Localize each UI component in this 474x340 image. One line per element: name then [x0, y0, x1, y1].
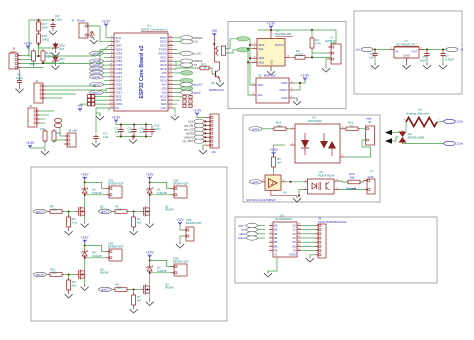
- svg-text:220v: 220v: [457, 142, 464, 146]
- svg-text:VDDO: VDDO: [279, 88, 288, 92]
- svg-text:10KΩ: 10KΩ: [46, 55, 55, 59]
- svg-text:100: 100: [52, 208, 57, 212]
- wire J5 pin2: [21, 59, 34, 61]
- wire heater left down: [405, 122, 407, 131]
- ground C6: [371, 63, 379, 69]
- pin U1 right IO17: [168, 75, 173, 77]
- wire Rn1 to U3: [288, 128, 290, 130]
- svg-text:pire: pire: [242, 228, 247, 232]
- wire 12v to CN CN2: [85, 245, 106, 251]
- pin U2 bottom: [270, 66, 272, 69]
- wire R3 left: [291, 56, 293, 58]
- wire bus to U5 scl: [248, 49, 251, 95]
- capacitor C4: [143, 126, 148, 136]
- wire top rail: [29, 19, 53, 21]
- zener ZD2: [52, 42, 58, 50]
- wire U3 to Rn1b: [344, 128, 345, 130]
- svg-text:1N4148: 1N4148: [157, 269, 167, 273]
- svg-text:1N4148: 1N4148: [157, 191, 167, 195]
- wire gpio to R R10: [47, 274, 49, 276]
- svg-text:5k1: 5k1: [137, 221, 142, 225]
- pin U4 out: [281, 180, 286, 182]
- pin U6 3C: [297, 232, 301, 234]
- wire diode to drain D2: [149, 274, 151, 285]
- ground C1: [92, 141, 100, 147]
- resistor R13 82k: [346, 180, 362, 184]
- svg-text:GND: GND: [281, 96, 287, 100]
- svg-text:1uF: 1uF: [369, 55, 374, 59]
- wire uln out: [301, 250, 315, 252]
- pin U6 7C: [297, 249, 301, 251]
- resistor R21: [198, 66, 211, 70]
- svg-text:J3: J3: [35, 79, 38, 83]
- svg-text:+5V: +5V: [72, 129, 77, 133]
- power +12V Q3: [146, 251, 154, 259]
- wire J5 pin1: [21, 55, 29, 57]
- pin U1 left IO27: [109, 75, 114, 77]
- svg-text:Heating_Element: Heating_Element: [406, 112, 429, 116]
- svg-text:330: 330: [277, 124, 282, 128]
- wire SD3 left: [96, 99, 109, 101]
- wire 12v to CN CN1: [85, 182, 106, 188]
- svg-text:J1: J1: [330, 36, 333, 40]
- pin U2 AD1: [252, 61, 257, 63]
- wire R to gate R6: [64, 211, 76, 213]
- svg-text:220v: 220v: [368, 175, 375, 179]
- wire U9 to R13: [340, 181, 346, 182]
- svg-text:R15: R15: [30, 62, 35, 66]
- net flag pi_DC right: [173, 52, 180, 54]
- svg-text:IRL540: IRL540: [165, 286, 174, 290]
- pin U1 left IO33: [109, 63, 114, 65]
- svg-text:J7: J7: [370, 169, 373, 173]
- wire J5 pin3: [21, 63, 96, 65]
- pin U2 out 10: [285, 56, 291, 58]
- pin U3 2: [290, 143, 295, 145]
- ground U1 bottom: [171, 114, 179, 120]
- wire U3 pin4 to J6: [345, 147, 371, 157]
- wire gpio to R R8: [112, 289, 114, 291]
- pin U5 VDDO: [289, 88, 294, 90]
- svg-text:+5V: +5V: [77, 104, 84, 108]
- svg-text:1uF: 1uF: [115, 130, 120, 134]
- net flag gpio Q4: [34, 272, 47, 276]
- net flag gpio Q3: [99, 287, 112, 291]
- pin U1 left IO12: [109, 83, 114, 85]
- wire TXD0 stub: [173, 49, 177, 51]
- resistor R15: [32, 49, 36, 63]
- wire U9 pin2 down: [299, 190, 304, 196]
- svg-text:E: E: [275, 253, 277, 257]
- pin U9 4: [334, 179, 340, 181]
- svg-text:+12V: +12V: [81, 236, 89, 240]
- mosfet Q1: [141, 207, 150, 217]
- wire R4 bottom: [311, 50, 313, 57]
- ground cn6: [176, 242, 184, 248]
- resistor R14: [41, 49, 45, 63]
- svg-text:OUT: OUT: [411, 50, 417, 54]
- net flag gpio27: [103, 76, 109, 78]
- svg-text:ESP32 Core Board v2: ESP32 Core Board v2: [139, 45, 145, 98]
- pin U6 3B: [269, 232, 273, 234]
- power +12V cn6: [176, 218, 184, 226]
- net flag CS right: [173, 41, 180, 43]
- svg-text:spi_RST: spi_RST: [182, 139, 193, 143]
- svg-text:gpio13: gpio13: [92, 90, 101, 94]
- power +3.3V divider: [24, 42, 33, 50]
- wire ad0 tie: [250, 57, 252, 59]
- svg-text:5.1k: 5.1k: [72, 221, 78, 225]
- wire sensor vcc rail: [270, 29, 272, 30]
- header P1 programming: [87, 95, 90, 98]
- opto inside U9: [312, 182, 330, 190]
- zener ZD1: [52, 55, 58, 63]
- net flag gpio33: [103, 64, 109, 66]
- pin U9 3: [334, 188, 340, 190]
- pin U1 left IO34: [109, 52, 114, 54]
- svg-text:gpio2: gpio2: [194, 90, 201, 94]
- pin U5 GND: [289, 96, 294, 98]
- wire 12v down D1: [149, 180, 151, 186]
- pin U1 left IO25: [109, 67, 114, 69]
- svg-text:+3.3V: +3.3V: [267, 22, 276, 26]
- pin U1 right SD1: [168, 98, 173, 100]
- capacitor C8: [50, 22, 55, 29]
- svg-text:+3.3V: +3.3V: [24, 42, 33, 46]
- pin U1 left GND: [109, 87, 114, 89]
- diode D2: [147, 264, 153, 274]
- pin U1 right SD0: [168, 102, 173, 104]
- ground rb R9: [65, 292, 73, 298]
- wire CN pin2 CN2: [85, 257, 106, 259]
- svg-text:Q5: Q5: [211, 81, 215, 85]
- wire CMD left: [80, 103, 109, 105]
- wire SVN long: [96, 50, 109, 64]
- ground J2: [90, 38, 98, 44]
- svg-text:5k1: 5k1: [72, 284, 77, 288]
- svg-text:12v: 12v: [355, 48, 360, 52]
- svg-text:lahko2: lahko2: [238, 236, 246, 240]
- ground J10: [203, 145, 206, 148]
- pin U1 right IO22: [168, 44, 173, 46]
- wire R to gate R10: [64, 274, 76, 276]
- pin U1 right IO4: [168, 83, 173, 85]
- resistor R2: [113, 210, 129, 214]
- svg-text:10uF: 10uF: [419, 58, 426, 62]
- pin U1 right IO5: [168, 71, 173, 73]
- wire IO14 left: [104, 80, 109, 82]
- ground C7: [439, 63, 447, 69]
- svg-text:IRL540: IRL540: [165, 208, 174, 212]
- wire U3 pin2 to R5: [274, 145, 286, 156]
- header SPI pins: [173, 96, 181, 98]
- capacitor C10: [149, 126, 154, 136]
- net flag 220v bottom: [444, 141, 456, 145]
- wire IO35 stub: [104, 56, 109, 58]
- resistor Rn1 1k: [344, 127, 360, 131]
- ground q Q1: [146, 222, 154, 228]
- svg-text:82k: 82k: [350, 175, 355, 179]
- svg-text:100Ω: 100Ω: [296, 53, 304, 57]
- wire GND14 down: [106, 88, 109, 90]
- resistor R3: [293, 56, 307, 60]
- pin U1 left SD3: [109, 98, 114, 100]
- wire 12v down D3: [84, 180, 86, 186]
- svg-text:0.33uF: 0.33uF: [445, 57, 454, 61]
- svg-text:4.7K: 4.7K: [315, 42, 321, 46]
- net flag MOSI2 right: [173, 37, 180, 39]
- svg-text:+3.3V: +3.3V: [26, 141, 35, 145]
- resistor R9: [68, 275, 70, 281]
- wire R to gate R8: [129, 289, 141, 291]
- pin U1 right TXD0: [168, 48, 173, 50]
- svg-text:EK500V-02P: EK500V-02P: [173, 260, 189, 264]
- svg-text:gpio5: gpio5: [252, 180, 259, 184]
- wire diode to drain D3: [84, 196, 86, 207]
- svg-text:AVI/BUS: AVI/BUS: [325, 39, 336, 43]
- wire RXD0 stub: [173, 52, 177, 54]
- wire uln out: [301, 245, 315, 247]
- box mosfet drivers: [31, 167, 227, 321]
- wire J5 pin4: [21, 67, 43, 69]
- diode D4: [82, 249, 88, 259]
- mosfet Q3: [141, 285, 150, 295]
- capacitor C1: [95, 113, 97, 133]
- ground U6: [264, 271, 272, 277]
- wire 12v down D4: [84, 243, 86, 249]
- resistor R4: [310, 36, 314, 50]
- svg-text:1N4148: 1N4148: [92, 191, 102, 195]
- pin U3 4: [340, 155, 345, 157]
- svg-text:GND: GND: [403, 54, 409, 58]
- svg-text:BMP180: BMP180: [264, 74, 276, 78]
- resistor R7: [133, 290, 135, 296]
- power +3.3V bmp: [301, 74, 310, 82]
- svg-text:R9: R9: [72, 280, 76, 284]
- wire mosfet source Q4: [84, 278, 86, 284]
- svg-text:R1: R1: [137, 217, 141, 221]
- wire J8 wires: [54, 140, 64, 143]
- resistor R16: [37, 32, 41, 45]
- pin U6 1C: [297, 224, 301, 226]
- svg-text:+3.3V: +3.3V: [112, 116, 121, 120]
- wire 12v to CN CN4: [150, 182, 171, 188]
- pin U1 right IO18: [168, 67, 173, 69]
- svg-text:J2: J2: [71, 19, 75, 23]
- wire gpio to R R6: [47, 211, 49, 213]
- net flag port right: [173, 88, 180, 90]
- svg-text:+3.3V: +3.3V: [102, 20, 111, 24]
- pin U6 4B: [269, 236, 273, 238]
- svg-text:D4: D4: [92, 250, 96, 254]
- svg-text:EK500V-02P: EK500V-02P: [108, 245, 124, 249]
- wire zener1 link: [43, 57, 56, 63]
- svg-text:VDD: VDD: [281, 81, 287, 85]
- junction node a: [38, 55, 40, 57]
- pin U1 right GND: [168, 59, 173, 61]
- svg-text:P125-1108A0BS116A2: P125-1108A0BS116A2: [318, 220, 347, 224]
- svg-text:100: 100: [117, 208, 122, 212]
- wire 12v down D2: [149, 258, 151, 264]
- net flag gpio4 triac: [249, 127, 262, 131]
- svg-text:+12V: +12V: [146, 251, 154, 255]
- junction R17 top: [38, 19, 40, 21]
- power +3.3V reset: [102, 20, 111, 28]
- svg-text:PC814 DIL04: PC814 DIL04: [318, 174, 335, 178]
- svg-text:4k7: 4k7: [277, 161, 282, 165]
- wire R21 left: [173, 68, 198, 69]
- svg-text:EK500V-02P: EK500V-02P: [186, 221, 202, 225]
- capacitor C3: [131, 126, 136, 136]
- power +3.3V sensors: [267, 22, 276, 30]
- wire uln out: [301, 237, 315, 239]
- svg-text:gpio27: gpio27: [101, 288, 109, 292]
- svg-text:AD1: AD1: [259, 60, 265, 64]
- pin U1 right IO16: [168, 79, 173, 81]
- svg-text:+3.3V: +3.3V: [269, 148, 278, 152]
- power +12V Q2: [81, 173, 89, 181]
- svg-text:U4: U4: [283, 191, 287, 195]
- svg-text:3v3: 3v3: [59, 47, 64, 51]
- wire heater right: [437, 121, 444, 124]
- ground ZD1: [52, 64, 60, 70]
- svg-text:100: 100: [52, 271, 57, 275]
- resistor R20: [43, 129, 47, 143]
- svg-text:COM: COM: [289, 253, 296, 257]
- svg-text:SCL: SCL: [258, 93, 264, 97]
- wire J4 gnd: [310, 255, 315, 256]
- wire CN pin2 CN1: [85, 194, 106, 196]
- svg-text:D2: D2: [157, 265, 161, 269]
- pin U9 1: [304, 180, 308, 182]
- junction R16 bottom: [38, 44, 40, 46]
- svg-text:PCTLZ: PCTLZ: [275, 43, 284, 47]
- net flag TX right: [173, 64, 180, 66]
- ground aux: [41, 149, 49, 155]
- wire Q5 emitter: [219, 79, 222, 81]
- net flag 220v top: [444, 119, 456, 123]
- svg-text:1uF: 1uF: [140, 130, 145, 134]
- ground q Q3: [146, 300, 154, 306]
- svg-text:gpio25: gpio25: [92, 67, 101, 71]
- svg-text:+12V: +12V: [176, 218, 184, 222]
- resistor R6: [48, 210, 64, 214]
- pin U6 7B: [269, 249, 273, 251]
- pin U6 2C: [297, 228, 301, 230]
- resistor R18: [52, 129, 56, 143]
- pin U6 6C: [297, 245, 301, 247]
- svg-text:EK500V-02P: EK500V-02P: [173, 182, 189, 186]
- net label gpio2: [173, 91, 180, 93]
- pin U7 in: [389, 48, 394, 50]
- wire diode to drain D1: [149, 196, 151, 207]
- ground rb R5: [65, 229, 73, 235]
- svg-text:J6: J6: [368, 120, 371, 124]
- wire cn6: [180, 226, 183, 231]
- pin U1 left 5V: [109, 106, 114, 108]
- svg-text:IRL540: IRL540: [100, 271, 109, 275]
- wire 3v3 to U1: [106, 27, 109, 38]
- pin U1 right IO0: [168, 87, 173, 89]
- connector J10: [206, 114, 219, 148]
- ground rb R7: [130, 307, 138, 313]
- net flag MISO1 right: [173, 60, 180, 62]
- led inside U3: [301, 133, 309, 155]
- power +3.3V buf: [269, 148, 278, 156]
- pin U1 right IO2: [168, 91, 173, 93]
- svg-text:gpio26: gpio26: [92, 71, 101, 75]
- wire IO13 flag: [103, 91, 109, 93]
- pushbutton reset: [91, 32, 95, 38]
- net flag gpio5: [249, 180, 261, 184]
- ground C9: [19, 84, 21, 87]
- ic U4 buffer: [265, 175, 281, 190]
- svg-text:+3.3V: +3.3V: [193, 109, 202, 113]
- ground U4: [271, 190, 297, 195]
- power +3.3V aux: [26, 141, 35, 149]
- power +5V aux: [77, 104, 84, 112]
- wire R to gate R2: [129, 211, 141, 213]
- pin U6 2B: [269, 228, 273, 230]
- pin U1 left SVP: [109, 44, 114, 46]
- diode D1: [147, 186, 153, 196]
- svg-text:+3.3V: +3.3V: [301, 74, 310, 78]
- svg-text:U9: U9: [319, 170, 323, 174]
- pin U5 VDD: [289, 81, 294, 83]
- wire R16 tap: [39, 45, 56, 49]
- box regulator: [354, 11, 462, 94]
- wire CN pin2 CN5: [150, 272, 171, 274]
- svg-text:100r: 100r: [42, 26, 48, 30]
- svg-text:J4: J4: [29, 104, 32, 108]
- mosfet Q4: [76, 270, 85, 280]
- wire J9 pin2: [214, 52, 216, 54]
- pin U1 left CMD: [109, 102, 114, 104]
- svg-text:U1: U1: [147, 24, 151, 28]
- svg-text:Q4: Q4: [100, 267, 104, 271]
- resistor R17: [37, 20, 41, 33]
- svg-text:J10: J10: [211, 150, 216, 154]
- wire Rn1b to J6: [360, 128, 365, 130]
- pin U1 left IO26: [109, 71, 114, 73]
- svg-text:GND: GND: [271, 59, 274, 65]
- svg-text:SN74LVC1G17DBVR: SN74LVC1G17DBVR: [246, 198, 276, 202]
- wire caps rail bottom: [116, 136, 152, 138]
- wire 5V pin: [96, 108, 109, 111]
- junction R14 bot: [42, 62, 44, 64]
- pin U1 right GND: [168, 36, 173, 38]
- pin U4 in: [262, 180, 266, 182]
- ground J1: [326, 59, 328, 66]
- net flag port right: [173, 80, 180, 82]
- pin U6 6B: [269, 245, 273, 247]
- svg-text:D1: D1: [157, 187, 161, 191]
- port sensor SCL: [237, 48, 249, 52]
- net flag gpio Q2: [34, 209, 47, 213]
- wire U6 emitter: [268, 257, 277, 271]
- wire uln out: [301, 224, 315, 226]
- pin U6 4C: [297, 236, 301, 238]
- svg-text:J8: J8: [68, 129, 71, 133]
- wire J3 pins: [46, 85, 96, 87]
- wire reg out: [424, 49, 446, 51]
- svg-text:220v: 220v: [457, 120, 464, 124]
- power +12V Q1: [146, 173, 154, 181]
- svg-text:MOC3023: MOC3023: [308, 119, 322, 123]
- net flag gpio12: [103, 84, 109, 86]
- pin U1 left IO14: [109, 79, 114, 81]
- svg-text:5V: 5V: [116, 106, 120, 110]
